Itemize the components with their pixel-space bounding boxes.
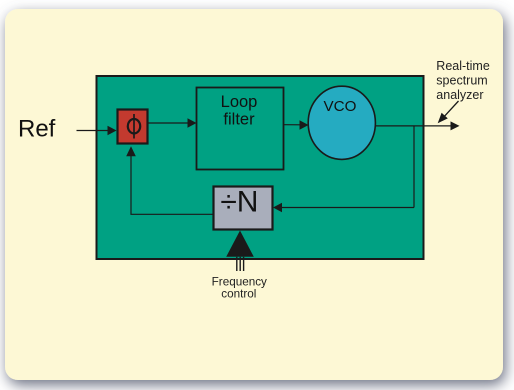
- pointer arrow from analyzer label to output wire: [444, 101, 458, 116]
- loop filter box: [197, 88, 284, 170]
- phi symbol: [128, 114, 140, 139]
- frequency control bus lines: [237, 257, 244, 271]
- svg-text:analyzer: analyzer: [436, 88, 483, 102]
- svg-text:spectrum: spectrum: [436, 73, 487, 87]
- wire phase detector to loop filter: [149, 122, 190, 124]
- frequency control thick arrow: [226, 231, 254, 257]
- wire loop filter to VCO: [284, 124, 302, 126]
- phase detector box (red): [118, 110, 148, 144]
- svg-text:Loop: Loop: [221, 93, 258, 111]
- wire Ref to phase detector: [77, 130, 110, 132]
- svg-text:÷N: ÷N: [220, 185, 258, 218]
- wire divider to phase detector: [131, 155, 214, 214]
- svg-text:VCO: VCO: [324, 98, 357, 115]
- svg-text:control: control: [221, 288, 256, 301]
- svg-text:Real-time: Real-time: [436, 59, 490, 73]
- svg-text:filter: filter: [223, 110, 255, 128]
- divider box (divide by N, gray): [214, 187, 273, 230]
- svg-text:Ref: Ref: [18, 116, 56, 143]
- VCO ellipse: [308, 86, 375, 159]
- wire feedback to divider: [281, 207, 414, 209]
- PLL block outline (green rectangle): [97, 76, 424, 259]
- wire VCO to output: [376, 125, 452, 127]
- wire feedback vertical from output junction: [413, 126, 415, 208]
